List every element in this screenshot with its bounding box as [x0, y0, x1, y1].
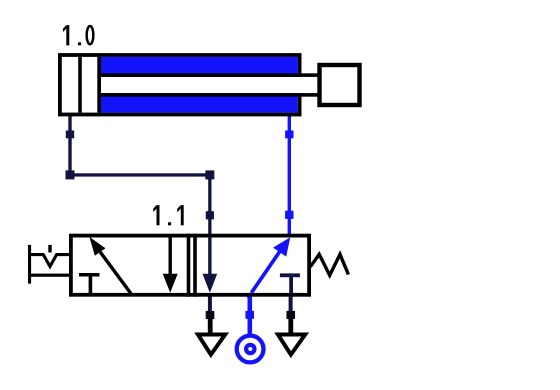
cylinder 1.0 piston rod [101, 73, 318, 96]
wire: blue vertical from cylinder right port to valve [288, 115, 291, 240]
actuator: return spring (right) [310, 254, 348, 275]
exhaust left: black stub line [208, 319, 213, 334]
exhaust triangle left [198, 335, 225, 355]
node: corner junction left [66, 170, 75, 179]
cylinder 1.0 piston plate line 2 [97, 57, 101, 113]
compressed air source (blue circle with inner dot) [237, 336, 264, 363]
node: connection below cylinder left port [66, 131, 74, 139]
node: connection above valve (navy) [206, 211, 214, 219]
valve 1.1 body outline [71, 236, 309, 295]
actuator: manual lever with detent (left) [28, 245, 70, 284]
valve path: black diagonal arrow (left box, up-left) [89, 237, 130, 294]
exhaust triangle right [278, 335, 305, 355]
valve 1.1 divider line left [187, 234, 191, 297]
valve port block T (left box, black) [79, 273, 100, 293]
valve path: navy vertical down arrow (right box) [203, 238, 218, 293]
node: connection pressure port (blue) [245, 311, 254, 319]
node: connection below cylinder right port (blue) [285, 131, 293, 139]
valve path: black vertical down arrow (left box) [163, 238, 178, 293]
node: corner junction right [205, 170, 214, 179]
wire: blue diagonal remnant under valve border [248, 292, 252, 298]
wire: blue stub below valve pressure port [248, 292, 253, 312]
wire: navy vertical down to valve port [208, 173, 211, 240]
wire: navy horizontal [68, 173, 211, 176]
wire: navy stub below valve exhaust port 1 [208, 292, 212, 312]
label 1.0 (cylinder designator) [63, 25, 93, 45]
valve port block T (right box, navy) [280, 273, 300, 293]
node: connection exhaust right (navy) [286, 311, 295, 319]
valve 1.1 divider line right [193, 234, 197, 297]
exhaust right: black stub line [288, 319, 293, 334]
node: connection above valve (blue) [285, 211, 293, 219]
valve path: blue diagonal arrow (right box, up-right) [251, 237, 290, 293]
cylinder 1.0 rod end block [320, 65, 360, 105]
node: connection exhaust left (navy) [206, 311, 215, 319]
cylinder 1.0 pressurized chamber (blue fill) [101, 57, 298, 113]
wire: navy stub below valve exhaust port 3 [289, 292, 293, 312]
cylinder 1.0 body [60, 55, 300, 115]
label 1.1 (valve designator) [153, 205, 184, 225]
compressed air source: blue stub line [248, 319, 253, 336]
cylinder 1.0 piston plate line 1 [78, 57, 82, 113]
wire: navy vertical from cylinder left port [68, 115, 71, 177]
